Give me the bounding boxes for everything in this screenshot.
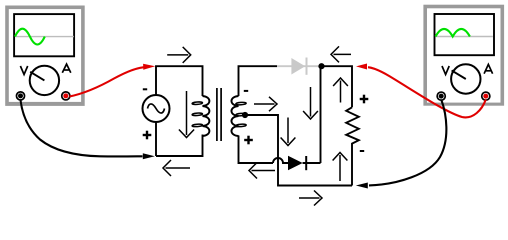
multimeter M1 screen [14,14,74,56]
transformer T1 center tap junction [242,112,248,118]
multimeter M1 label A [62,64,71,73]
wire primary left upper and top [156,66,203,96]
multimeter M1 dial [30,66,59,95]
transformer T1 secondary winding [231,96,246,136]
node junction (diode outputs to load) [318,63,324,69]
load polarity label + [360,95,369,104]
current arrow: D2 branch (down) [303,87,318,119]
wire diode D2 cathode up to node [320,66,322,163]
wire secondary bottom [239,136,274,164]
current arrow: primary coil (down) [179,91,194,138]
multimeter M2 red test lead [356,64,486,118]
current arrow: center tap drop (down) [281,118,296,146]
multimeter M1 red test lead [70,64,156,97]
wire secondary top [239,66,278,96]
current arrow: secondary bottom (left) [249,163,275,179]
AC source polarity label - [143,88,147,90]
current arrow: primary bottom (left) [163,160,190,176]
multimeter M1 (left meter) frame [5,6,85,106]
AC source polarity label + [143,131,152,140]
multimeter M1 screen baseline [16,36,74,38]
current arrow: node top (left) [331,46,351,62]
diode D2 (bottom, conducting) [288,156,321,171]
secondary polarity label - [244,90,248,92]
current arrow: bottom rail (right) [299,191,322,206]
secondary polarity label + [244,136,253,145]
multimeter M2 label V [442,66,449,75]
multimeter M2 red terminal [482,92,490,100]
wire node to load top [322,66,353,107]
resistor R1 (load) [346,107,359,146]
wire center tap to bottom rail [245,115,352,186]
multimeter M2 black terminal [437,92,445,100]
multimeter M1 label V [20,66,27,75]
multimeter M1 red terminal [62,92,70,100]
load polarity label - [360,150,364,152]
multimeter M2 screen baseline [436,36,493,38]
multimeter M1 black test lead [21,100,155,159]
wire crossover hop [273,158,289,163]
multimeter M2 black test lead [356,100,447,189]
multimeter M1 black terminal [16,92,24,100]
diode D1 (top, not conducting, gray) [277,58,321,75]
transformer T1 primary winding [192,96,209,136]
multimeter M2 label A [484,64,493,73]
wire primary left lower [155,122,157,156]
current arrow: load upper (up) [333,78,348,103]
wire primary bottom [156,135,203,157]
current arrow: load lower (up) [333,153,348,182]
multimeter M2 (right meter) frame [423,5,504,106]
current arrow: primary top (right) [167,47,191,63]
wire load bottom [351,146,353,186]
multimeter M2 rectified trace [436,29,470,37]
multimeter M2 dial [451,64,480,93]
AC source V1 [143,95,170,122]
multimeter M1 needle [30,72,44,81]
multimeter M2 screen [435,14,495,55]
transformer T1 core [217,88,221,141]
current arrow: center tap (right) [254,97,277,111]
multimeter M2 needle [452,70,466,79]
multimeter M1 sine wave trace [15,29,45,45]
